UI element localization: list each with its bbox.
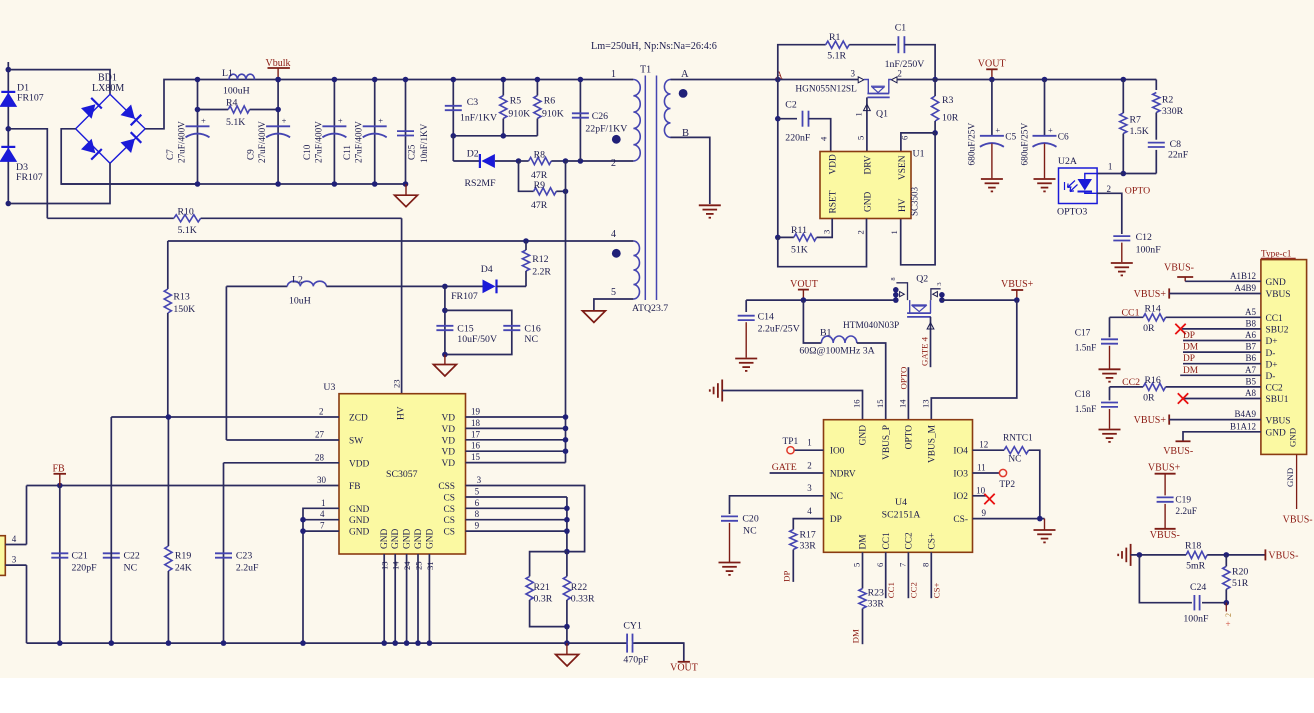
power port VBUS+ B4A9 (1168, 415, 1170, 425)
svg-text:10nF/1KV: 10nF/1KV (419, 123, 429, 163)
junction A node (775, 77, 781, 83)
svg-text:GND: GND (1266, 429, 1287, 439)
svg-text:C8: C8 (1170, 139, 1182, 150)
wire VD pin 15 (466, 462, 566, 464)
wire HV riser (401, 218, 403, 393)
resistor R12 2.2R (522, 250, 529, 271)
secondary polarity dot (679, 89, 688, 98)
svg-text:GATE 4: GATE 4 (920, 336, 930, 366)
svg-text:D2: D2 (467, 149, 479, 160)
svg-text:GND: GND (349, 516, 370, 526)
wire VD bus upper (565, 161, 567, 417)
no-connect X SBU2 (1175, 324, 1185, 334)
left connector box (0, 536, 5, 576)
junction VBUS+ (1014, 297, 1020, 303)
wire CS pin 6 (466, 507, 567, 509)
junction U3 gnd 31 (427, 640, 433, 646)
wire bridge AC bottom (8, 163, 110, 203)
svg-text:A7: A7 (1245, 365, 1256, 375)
svg-text:VOUT: VOUT (670, 663, 698, 674)
svg-text:NC: NC (743, 526, 757, 537)
power port VOUT mid (802, 290, 804, 300)
svg-text:0.33R: 0.33R (571, 594, 595, 605)
Q2 stacked pin dots left (893, 287, 899, 293)
svg-text:10uH: 10uH (289, 296, 311, 307)
wire U3 GND pin 24 (406, 554, 408, 643)
svg-text:IO3: IO3 (953, 469, 968, 479)
svg-text:14: 14 (391, 561, 401, 570)
wire R8 to pin2 line (566, 160, 634, 162)
ferrite bead B1 (803, 300, 821, 343)
svg-text:VD: VD (441, 436, 455, 446)
aux polarity dot (612, 249, 621, 258)
svg-text:3: 3 (12, 555, 17, 565)
ground under rail (566, 643, 568, 654)
svg-text:1: 1 (611, 69, 616, 80)
svg-text:CS-: CS- (953, 515, 968, 525)
capacitor C26 22pF/1KV (579, 80, 581, 162)
svg-text:VD: VD (441, 425, 455, 435)
transformer T1 secondary winding A-B (664, 80, 670, 138)
junction C7 top (195, 77, 201, 83)
junction CS bus (564, 517, 570, 523)
svg-text:VBUS+: VBUS+ (1134, 289, 1167, 300)
wire CS pin 5 (466, 496, 567, 498)
wire DP pin4 R17 (793, 519, 823, 530)
svg-text:CC2: CC2 (1266, 384, 1284, 394)
svg-text:U2A: U2A (1058, 156, 1077, 167)
svg-text:22nF: 22nF (1168, 150, 1189, 161)
wire rail to VBUS+ (942, 299, 1017, 301)
svg-text:910K: 910K (508, 109, 530, 120)
svg-text:C16: C16 (524, 324, 540, 335)
wire CS pin 8 (466, 519, 567, 521)
junction R21R22 bottom (564, 624, 570, 630)
junction C25 bottom (403, 181, 409, 187)
svg-text:5.1R: 5.1R (827, 51, 846, 62)
svg-text:R9: R9 (534, 180, 546, 191)
svg-text:3: 3 (477, 475, 482, 485)
resistor R16 0R (1110, 386, 1144, 388)
resistor R6 910K (534, 96, 541, 119)
testpoint TP2 (973, 472, 1000, 474)
junction R7 top (1121, 77, 1127, 83)
svg-text:7: 7 (898, 562, 908, 567)
svg-text:1nF/250V: 1nF/250V (885, 59, 925, 70)
resistor R21 0.3R (530, 552, 567, 577)
ground under C17 (1099, 368, 1121, 370)
svg-text:R23: R23 (868, 588, 884, 599)
junction VOUT mid (801, 297, 807, 303)
svg-text:C10: C10 (302, 144, 312, 160)
svg-text:R19: R19 (175, 551, 191, 562)
svg-text:C26: C26 (592, 111, 608, 122)
svg-text:U1: U1 (913, 149, 925, 160)
diode D3 (1, 146, 15, 148)
diode D1 (1, 91, 15, 93)
svg-text:24K: 24K (175, 563, 192, 574)
svg-text:R8: R8 (534, 150, 546, 161)
resistor R13 150K (167, 241, 169, 289)
junction C10 bottom (332, 181, 338, 187)
svg-text:A1B12: A1B12 (1230, 271, 1256, 281)
junction FB (57, 483, 63, 489)
junction GND riser bottom (300, 640, 306, 646)
wire rail Q1 to R2 corner (897, 79, 1156, 81)
junction C11 bottom (372, 181, 378, 187)
svg-text:6: 6 (875, 562, 885, 567)
junction GND7 (300, 528, 306, 534)
resistor R19 24K (165, 546, 172, 571)
svg-text:ZCD: ZCD (349, 414, 368, 424)
svg-text:+: + (201, 115, 206, 125)
svg-text:RS2MF: RS2MF (465, 178, 497, 189)
svg-text:16: 16 (471, 441, 481, 451)
svg-text:CC1: CC1 (1266, 314, 1284, 324)
mark below C24 node (1225, 603, 1227, 612)
svg-text:31: 31 (425, 561, 435, 570)
svg-text:330R: 330R (1162, 106, 1184, 117)
svg-text:1: 1 (854, 112, 864, 116)
svg-text:B4A9: B4A9 (1234, 409, 1256, 419)
junction R4 left (195, 107, 201, 113)
wire VBUS_M loop (931, 300, 1017, 420)
wire VD pin 19 (466, 416, 566, 418)
svg-text:2: 2 (856, 230, 866, 234)
svg-text:HTM040N03P: HTM040N03P (843, 321, 899, 331)
svg-text:14: 14 (898, 399, 908, 408)
svg-text:19: 19 (471, 407, 481, 417)
capacitor C6 680uF/25V (1044, 80, 1046, 136)
svg-text:D4: D4 (481, 264, 493, 275)
wire GND row A1B12 (1185, 280, 1261, 282)
svg-text:LX80M: LX80M (92, 83, 124, 94)
svg-text:13: 13 (921, 399, 931, 408)
svg-text:HV: HV (898, 198, 908, 212)
junction U3 gnd 13 (381, 640, 387, 646)
svg-text:VBUS_P: VBUS_P (882, 425, 892, 460)
svg-text:GND: GND (349, 505, 370, 515)
svg-text:+: + (1048, 125, 1053, 135)
junction C3 top (451, 77, 457, 83)
wire Q2 gate stub GATE (930, 317, 932, 367)
svg-text:D-: D- (1266, 372, 1276, 382)
svg-text:3: 3 (807, 483, 812, 493)
svg-text:VDD: VDD (829, 154, 839, 175)
capacitor C20 NC (721, 515, 738, 517)
inductor L1 100uH (229, 74, 255, 79)
svg-text:R22: R22 (571, 582, 587, 593)
svg-text:Lm=250uH, Np:Ns:Na=26:4:6: Lm=250uH, Np:Ns:Na=26:4:6 (591, 41, 717, 52)
svg-text:5: 5 (611, 287, 616, 298)
resistor R20 51R (1223, 566, 1230, 589)
capacitor C12 100nF (1113, 235, 1130, 237)
svg-text:SBU2: SBU2 (1266, 326, 1289, 336)
svg-text:680uF/25V: 680uF/25V (968, 123, 978, 166)
svg-text:NC: NC (524, 334, 538, 345)
bridge diode bottom-right (121, 139, 135, 153)
transformer T1 aux winding 4-5 (633, 241, 639, 299)
resistor R14 0R (1110, 316, 1144, 318)
svg-text:C22: C22 (124, 551, 140, 562)
capacitor C25 10nF/1KV (397, 130, 414, 132)
svg-text:VBUS-: VBUS- (1268, 551, 1298, 562)
svg-text:C3: C3 (467, 97, 479, 108)
svg-text:DP: DP (782, 571, 792, 582)
svg-text:R7: R7 (1130, 115, 1142, 126)
svg-text:A: A (776, 71, 784, 82)
svg-text:R5: R5 (510, 96, 522, 107)
svg-text:8: 8 (475, 509, 480, 519)
svg-text:GND: GND (1285, 468, 1295, 487)
wire CC1 stub (885, 552, 887, 598)
svg-text:5: 5 (475, 487, 480, 497)
svg-text:VOUT: VOUT (790, 279, 818, 290)
svg-text:A6: A6 (1245, 330, 1256, 340)
svg-text:5: 5 (856, 136, 866, 140)
svg-text:24: 24 (402, 561, 412, 570)
svg-text:DM: DM (1183, 343, 1199, 353)
wire NC pin3 to C20 (730, 496, 824, 514)
svg-text:680uF/25V: 680uF/25V (1021, 123, 1031, 166)
svg-text:3: 3 (851, 69, 856, 79)
junction bottom-left (6, 201, 12, 207)
svg-text:L1: L1 (222, 68, 233, 79)
svg-text:VBUS+: VBUS+ (1148, 462, 1181, 473)
junction C9 bottom (275, 181, 281, 187)
junction VD bus (563, 426, 569, 432)
svg-text:IO0: IO0 (830, 447, 845, 457)
optocoupler U2A OPTO3 (1059, 168, 1098, 204)
svg-text:VBUS_M: VBUS_M (928, 424, 938, 463)
IC U1 SC3503 body (820, 152, 911, 219)
svg-text:GND: GND (1288, 428, 1298, 447)
svg-text:GND: GND (1266, 278, 1287, 288)
svg-text:B1A12: B1A12 (1230, 421, 1256, 431)
svg-text:SC2151A: SC2151A (882, 510, 921, 521)
svg-text:100uH: 100uH (223, 86, 250, 97)
junction C15 link top (442, 308, 448, 314)
ground under C15 (444, 355, 446, 365)
junction C25 top (403, 77, 409, 83)
testpoint TP1 (794, 449, 824, 451)
junction C7 bottom (195, 181, 201, 187)
svg-text:VBUS-: VBUS- (1283, 515, 1313, 526)
svg-text:1.5nF: 1.5nF (1075, 405, 1097, 415)
ground under C20 (719, 562, 741, 564)
junction R8 right (563, 158, 569, 164)
junction CS- RNTC (1037, 516, 1043, 522)
ground under C14 (735, 358, 757, 360)
resistor R18 5mR (1186, 551, 1207, 558)
junction C26 bottom (578, 158, 584, 164)
junction C10 top (332, 77, 338, 83)
capacitor C14 2.2uF/25V (745, 300, 747, 312)
svg-text:GATE: GATE (772, 462, 797, 473)
svg-text:FR107: FR107 (16, 172, 43, 183)
svg-text:R4: R4 (226, 98, 238, 109)
wire NDRV GATE (770, 472, 824, 474)
junction R12 top (523, 238, 529, 244)
svg-text:A4B9: A4B9 (1234, 283, 1256, 293)
svg-text:12: 12 (979, 440, 988, 450)
svg-text:GND: GND (349, 528, 370, 538)
svg-text:HV: HV (397, 406, 407, 420)
svg-text:100nF: 100nF (1183, 614, 1209, 625)
svg-text:DRV: DRV (864, 155, 874, 174)
wire aux line (168, 240, 634, 242)
capacitor C11 (363, 125, 387, 127)
resistor R5 910K (500, 96, 507, 119)
junction C11 top (372, 77, 378, 83)
wire C15 top riser (444, 286, 446, 354)
wire L2 riser to SW (225, 286, 227, 440)
svg-text:13: 13 (380, 561, 390, 570)
svg-text:C23: C23 (236, 551, 252, 562)
power port Vbulk (277, 68, 279, 80)
resistor R10 5.1K (47, 217, 174, 219)
svg-text:NC: NC (1008, 455, 1021, 465)
resistor R4 5.1K (198, 109, 229, 111)
svg-text:L2: L2 (292, 275, 303, 286)
wire link to C16 (445, 310, 512, 354)
svg-text:1.5nF: 1.5nF (1075, 344, 1097, 354)
svg-text:23: 23 (392, 379, 402, 388)
wire ZCD line (111, 416, 339, 418)
wire A net (671, 79, 859, 81)
svg-text:VD: VD (441, 414, 455, 424)
capacitor C24 100nF (1139, 555, 1192, 603)
svg-text:ATQ23.7: ATQ23.7 (632, 303, 668, 314)
svg-text:27uF/400V: 27uF/400V (313, 121, 323, 163)
svg-text:2: 2 (807, 460, 812, 470)
wire R1C1 branch (778, 45, 826, 80)
capacitor C1 1nF/250V (897, 36, 899, 53)
junction CS bus (564, 528, 570, 534)
svg-text:2: 2 (1224, 613, 1233, 617)
svg-text:VOUT: VOUT (978, 59, 1006, 70)
junction C24 right (1224, 600, 1230, 606)
svg-text:11: 11 (977, 463, 986, 473)
svg-text:33R: 33R (800, 541, 817, 552)
power port VOUT top (991, 69, 993, 79)
svg-text:8: 8 (921, 563, 931, 567)
svg-text:D+: D+ (1266, 360, 1278, 370)
svg-text:FR107: FR107 (451, 291, 478, 302)
junction R3 bottom (932, 130, 938, 136)
svg-text:51R: 51R (1232, 578, 1249, 589)
svg-text:A5: A5 (1245, 307, 1256, 317)
wire to bridge top (8, 70, 110, 95)
wire B to ground (671, 137, 710, 204)
wire CS- line (973, 518, 1045, 520)
wire pin3 riser to bottom rail (26, 565, 28, 643)
wire C8 to pin1 node (1123, 173, 1156, 175)
wire U1 gnd loop (778, 219, 867, 267)
wire U3 GND pin 14 (394, 554, 396, 643)
resistor RNTC1 NC (973, 449, 1005, 451)
svg-text:RNTC1: RNTC1 (1003, 434, 1033, 444)
svg-text:FB: FB (53, 464, 66, 475)
connector Type-c1 body (1261, 260, 1307, 455)
wire CS bus (566, 497, 568, 552)
svg-text:47R: 47R (531, 200, 548, 211)
wire CSS line (466, 486, 585, 552)
svg-text:16: 16 (852, 399, 862, 408)
svg-text:CC2: CC2 (909, 582, 919, 598)
bridge diode top-right (121, 105, 135, 119)
wire GND pin1 (303, 508, 339, 643)
ground under C6 (1034, 178, 1056, 180)
svg-text:T1: T1 (640, 65, 651, 76)
svg-text:+: + (1226, 619, 1231, 629)
svg-text:470pF: 470pF (623, 655, 649, 666)
svg-text:27uF/400V: 27uF/400V (257, 121, 267, 163)
svg-text:30: 30 (317, 475, 327, 485)
ground at CS- (1044, 519, 1046, 530)
wire U4 gnd line (722, 391, 862, 420)
svg-text:R3: R3 (942, 95, 954, 106)
ground under C25 (405, 184, 407, 195)
svg-text:27uF/400V: 27uF/400V (177, 121, 187, 163)
svg-text:SW: SW (349, 437, 363, 447)
wire pin4 riser to FB line (26, 486, 28, 545)
capacitor C23 2.2uF (223, 463, 225, 643)
capacitor C5 680uF/25V (991, 80, 993, 136)
svg-text:OPTO: OPTO (905, 425, 915, 450)
wire C25 vertical (405, 80, 407, 185)
wire U3 GND pin 31 (428, 554, 430, 643)
svg-text:DP: DP (830, 515, 842, 525)
svg-text:3: 3 (936, 282, 943, 285)
svg-text:GND: GND (864, 191, 874, 212)
wire ZCD riser (110, 417, 112, 643)
svg-text:33R: 33R (868, 599, 885, 610)
svg-text:B6: B6 (1245, 353, 1256, 363)
ground under pin5 (582, 311, 605, 323)
wire D1D3 junction to R10 riser (8, 129, 47, 219)
svg-text:R1: R1 (829, 32, 841, 43)
svg-text:U3: U3 (323, 382, 335, 393)
svg-text:+: + (995, 125, 1000, 135)
capacitor C15 10uF/50V (436, 325, 453, 327)
wire input left vertical (7, 62, 9, 204)
svg-text:5.1K: 5.1K (226, 117, 245, 128)
svg-text:Vbulk: Vbulk (266, 58, 291, 69)
capacitor C7 (186, 125, 210, 127)
svg-text:5mR: 5mR (1186, 561, 1206, 572)
svg-text:VBUS+: VBUS+ (1134, 415, 1167, 426)
bridge diode top-left (81, 104, 95, 118)
wire D+ A6 (1183, 340, 1261, 342)
capacitor C16 NC (503, 325, 520, 327)
svg-text:RSET: RSET (829, 190, 839, 213)
ground left of U4 (721, 380, 723, 402)
svg-text:B5: B5 (1245, 376, 1256, 386)
svg-text:GND: GND (414, 528, 424, 549)
wire D+ B6 (1183, 363, 1261, 365)
svg-text:C17: C17 (1075, 329, 1091, 339)
junction R6 top (535, 77, 541, 83)
svg-text:51K: 51K (791, 245, 808, 256)
diode D4 FR107 (445, 285, 483, 287)
junction VD bus (563, 448, 569, 454)
svg-text:DM: DM (859, 534, 869, 550)
svg-text:R14: R14 (1145, 303, 1161, 314)
svg-text:OPTO: OPTO (1125, 186, 1150, 197)
resistor R1 5.1R (826, 41, 850, 48)
svg-text:1: 1 (807, 438, 812, 448)
